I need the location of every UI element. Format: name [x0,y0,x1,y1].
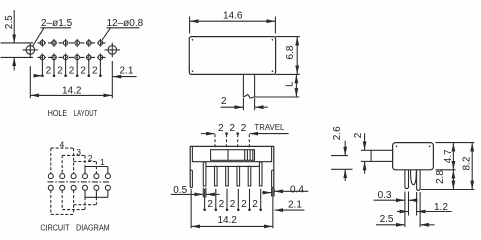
dim 14.6 ext lines [189,17,191,34]
svg-text:TRAVEL: TRAVEL [254,122,284,132]
pins [203,162,206,186]
link 4 dashed [51,147,74,149]
svg-text:6.8: 6.8 [285,45,296,59]
svg-text:2: 2 [88,153,93,163]
dim 1.2 lines [397,211,408,213]
dim 2.5 ext line [419,192,421,227]
svg-text:L: L [285,81,296,87]
dim 2.5 lines [376,224,405,226]
dim 2 lines [364,133,366,150]
big hole left [26,46,35,55]
terminals top row [48,174,110,179]
travel dim line [201,133,215,135]
bottom link dashed 1 [74,204,97,206]
dim 2.8 line [452,170,454,179]
svg-text:1: 1 [100,157,105,167]
svg-text:2.1: 2.1 [120,66,134,77]
svg-text:2.5: 2.5 [4,15,15,29]
hole row centerline bottom [38,56,106,58]
dim 2.1 line [275,209,305,211]
svg-text:CIRCUIT: CIRCUIT [40,222,70,232]
dim 2.6 ext lines [331,155,348,157]
pin bend loop [411,170,417,185]
dim L ext line [255,96,300,98]
svg-text:0.5: 0.5 [173,185,187,196]
svg-text:2: 2 [219,199,225,210]
svg-text:2: 2 [221,96,227,107]
link 3 dashed [62,154,85,156]
hole row centerline top [38,42,106,44]
svg-text:2: 2 [218,123,224,134]
pitch dim extension lines with dots [42,61,100,77]
dim 4.7 line [452,143,454,156]
link 2 dashed [74,161,97,163]
svg-text:2: 2 [207,199,213,210]
svg-text:2: 2 [252,199,258,210]
dim 6.8 ext lines [276,36,300,38]
svg-text:DIAGRAM: DIAGRAM [76,222,110,232]
body outline [190,145,274,147]
pin front [405,170,409,189]
svg-text:2: 2 [57,66,63,77]
svg-text:12–ø0.8: 12–ø0.8 [107,18,144,29]
dim 2.5 extension lines [1,42,34,44]
svg-text:HOLE: HOLE [48,108,68,118]
svg-text:0.3: 0.3 [378,190,392,201]
terminal stem with break [242,74,244,97]
svg-text:2.6: 2.6 [332,126,343,140]
small holes bottom row [40,53,103,61]
svg-text:14.6: 14.6 [223,10,243,21]
svg-text:2: 2 [241,199,247,210]
svg-text:4: 4 [60,139,65,149]
switch body rectangle [189,37,275,75]
dim 2 lines [221,106,244,108]
dim 0.3 lines [374,199,405,201]
knob [211,150,255,161]
dim 14.2 extension lines [29,66,31,98]
pin pitch ext lines with dots [205,189,261,211]
dim 2 ext lines [242,98,244,110]
svg-text:2: 2 [46,66,52,77]
dim 6.8 line [296,37,298,55]
svg-text:8.2: 8.2 [461,156,472,170]
row separator dashed [48,181,110,183]
svg-text:3: 3 [76,147,81,157]
svg-text:2: 2 [230,199,236,210]
dim 2.6 lines [344,141,346,156]
svg-text:2: 2 [80,66,86,77]
pitch dim lead-in arrow [34,75,42,77]
dim 0.5 lines [171,193,203,195]
inner wall lines [191,146,193,162]
svg-text:LAYOUT: LAYOUT [74,108,98,118]
dim 0.3 ext lines [404,192,406,228]
dim 14.2 line [191,225,231,227]
link 1 [85,166,108,168]
dim 14.2 ext line [190,189,192,228]
actuator stem [371,150,393,161]
svg-text:2–ø1.5: 2–ø1.5 [41,18,73,29]
svg-text:0.4: 0.4 [290,185,304,196]
body [393,143,434,170]
svg-text:2.5: 2.5 [380,214,394,225]
svg-text:2.1: 2.1 [288,200,302,211]
dim 0.5 ext lines [202,188,204,198]
dim 1.2 ext line [416,192,418,216]
travel dashed position lines [214,134,216,147]
leader 12-dia0.8 [107,27,140,29]
big hole right [108,46,117,55]
dim 0.4 lines [262,192,271,194]
stem ext lines [361,149,371,151]
bottom link dashed 3 [51,213,74,215]
svg-text:2: 2 [92,66,98,77]
right ext lines [436,142,475,144]
svg-text:4.7: 4.7 [443,149,454,163]
dim 2.1 line [113,76,137,78]
bottom link solid [85,196,108,198]
dim L line [295,75,297,85]
svg-text:14.2: 14.2 [218,215,238,226]
svg-text:2: 2 [69,66,75,77]
pin rear [417,170,421,191]
left mounting leg [191,170,193,187]
svg-text:2: 2 [353,132,364,138]
svg-text:1.2: 1.2 [434,202,448,213]
svg-text:2: 2 [229,123,235,134]
svg-text:2: 2 [241,123,247,134]
small holes top row [40,39,103,47]
svg-text:2.8: 2.8 [435,170,446,184]
dim 8.2 line [471,143,473,164]
svg-text:14.2: 14.2 [62,85,82,96]
leader 2-dia1.5 [41,27,72,29]
dim 2.5 lines with arrows [13,10,15,43]
dim 0.4 ext bar [271,188,273,197]
right mounting leg [271,170,273,187]
base strip bottom [206,165,260,167]
shoulders [192,161,271,163]
dim 14.2 line [31,94,71,96]
dim 14.6 line [190,20,232,22]
bottom link dashed 2 [62,209,85,211]
terminals bottom row [48,185,110,190]
